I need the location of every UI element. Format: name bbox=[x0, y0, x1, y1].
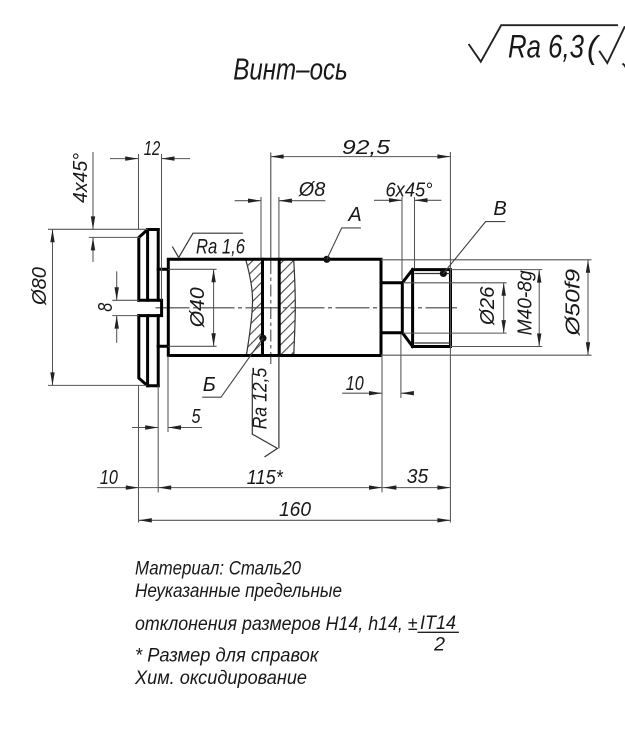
node B label bbox=[440, 270, 447, 277]
svg-text:Ø26: Ø26 bbox=[477, 286, 499, 326]
roughness Ra 1,6 on shaft bbox=[172, 233, 243, 257]
dimension M40-8g bbox=[451, 270, 543, 347]
svg-text:12: 12 bbox=[144, 138, 161, 160]
svg-text:IT14: IT14 bbox=[420, 612, 456, 634]
thread minor diameter lines bbox=[415, 274, 451, 344]
hole axis centerline bbox=[270, 153, 272, 263]
svg-text:Ra 1,6: Ra 1,6 bbox=[196, 236, 245, 259]
thread exit groove bbox=[381, 283, 402, 333]
head disk outline bbox=[139, 230, 158, 386]
svg-text:Неуказанные предельные: Неуказанные предельные bbox=[135, 580, 342, 602]
dimension 6x45 bbox=[374, 197, 441, 280]
svg-text:* Размер для справок: * Размер для справок bbox=[135, 645, 319, 667]
dimension Ø50f9 bbox=[381, 260, 592, 355]
svg-text:2: 2 bbox=[433, 634, 445, 656]
dimension 160 bbox=[139, 519, 451, 521]
main shaft outline bbox=[168, 259, 381, 355]
svg-text:Ø50f9: Ø50f9 bbox=[563, 269, 585, 337]
head slot bbox=[139, 300, 162, 315]
svg-text:Ra 6,3: Ra 6,3 bbox=[508, 29, 584, 65]
svg-text:8: 8 bbox=[95, 303, 117, 312]
dimension Ø26 bbox=[403, 283, 507, 333]
hole Ø8 walls bbox=[263, 259, 280, 355]
svg-text:A: A bbox=[347, 204, 361, 226]
dimension Ø80 bbox=[48, 229, 148, 385]
threaded end M40 bbox=[413, 270, 451, 347]
neck groove bbox=[158, 269, 168, 346]
svg-text:92,5: 92,5 bbox=[342, 137, 391, 159]
section boundary wavy line right bbox=[294, 260, 296, 356]
hatching of broken-out section left bbox=[238, 255, 268, 360]
svg-text:160: 160 bbox=[279, 499, 311, 521]
dimension chain 10 115* 35 bbox=[97, 356, 450, 523]
dimension 12 bbox=[110, 154, 190, 300]
svg-text:M40-8g: M40-8g bbox=[515, 270, 537, 335]
svg-text:6x45°: 6x45° bbox=[386, 180, 433, 202]
svg-text:Ø40: Ø40 bbox=[187, 287, 209, 328]
dimension 10 groove bbox=[342, 334, 413, 398]
svg-text:10: 10 bbox=[346, 373, 364, 395]
dimension Ø40 bbox=[168, 269, 216, 346]
svg-text:B: B bbox=[493, 198, 506, 220]
svg-text:отклонения размеров H14, h14,: отклонения размеров H14, h14, ± bbox=[135, 613, 418, 635]
dimension Ø8 bbox=[235, 197, 326, 258]
svg-text:115*: 115* bbox=[247, 467, 284, 489]
svg-text:Материал: Сталь20: Материал: Сталь20 bbox=[135, 558, 301, 580]
dimension 92,5 bbox=[271, 152, 451, 523]
node A label bbox=[323, 256, 330, 263]
svg-text:Ø80: Ø80 bbox=[29, 267, 51, 306]
chamfer cone 6x45 bbox=[402, 270, 412, 347]
hatching of broken-out section right bbox=[275, 255, 300, 360]
node Б label bbox=[259, 335, 266, 342]
svg-text:Винт–ось: Винт–ось bbox=[233, 52, 348, 87]
dimension 4x45 bbox=[89, 152, 140, 262]
dimension 8 slot bbox=[112, 271, 139, 343]
part axis centerline bbox=[156, 307, 458, 309]
svg-text:Ø8: Ø8 bbox=[298, 179, 325, 201]
svg-text:Ra 12,5: Ra 12,5 bbox=[250, 367, 272, 429]
dimension 5 bbox=[132, 356, 202, 433]
svg-text:Хим. оксидирование: Хим. оксидирование bbox=[134, 667, 307, 689]
roughness Ra 12,5 in hole bbox=[252, 356, 279, 457]
svg-text:35: 35 bbox=[407, 466, 429, 488]
general roughness symbol Ra 6,3 top right bbox=[469, 25, 625, 68]
svg-text:Б: Б bbox=[203, 374, 216, 396]
svg-text:10: 10 bbox=[100, 467, 118, 489]
svg-text:5: 5 bbox=[192, 406, 202, 428]
section boundary wavy line left bbox=[246, 260, 253, 356]
svg-text:4x45°: 4x45° bbox=[70, 153, 92, 203]
